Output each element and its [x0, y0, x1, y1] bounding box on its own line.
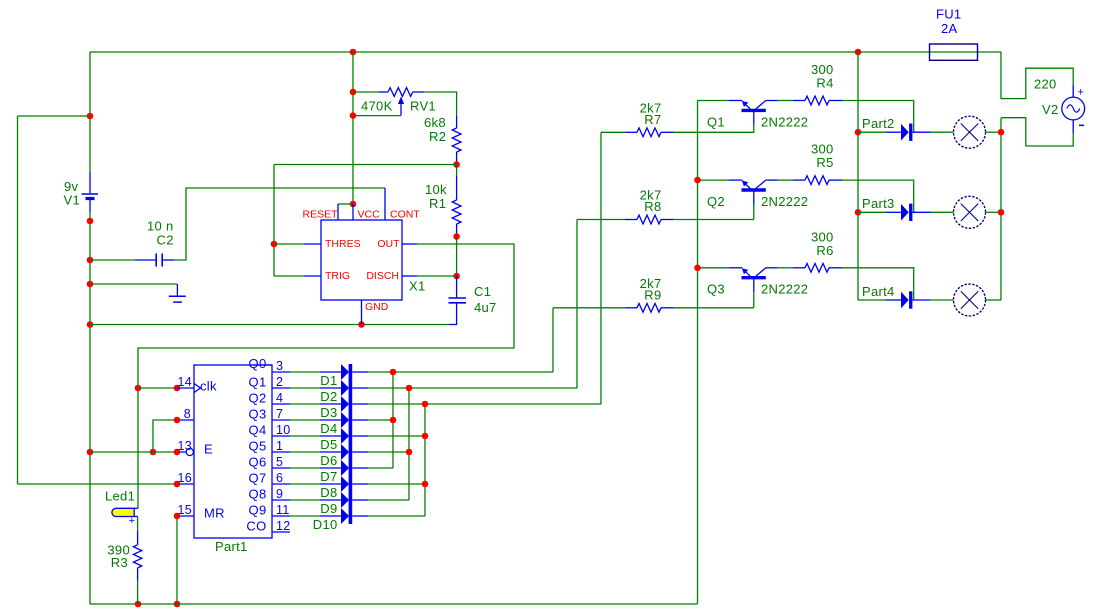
node junction top rail / RV1 branch — [350, 49, 357, 56]
wire matrix column A — [392, 372, 394, 468]
node MR bottom rail junction — [174, 601, 181, 608]
pin GND stub — [361, 300, 363, 325]
svg-text:FU1: FU1 — [936, 7, 961, 22]
resistor R4 — [793, 100, 805, 102]
node junction RESET/VCC tie — [350, 201, 357, 208]
svg-text:MR: MR — [204, 506, 225, 521]
pin Q0 internal wire — [253, 364, 272, 366]
wire column to R8 — [576, 220, 578, 389]
wire outer left vertical — [17, 116, 19, 484]
wire Q2 base down — [753, 205, 755, 220]
svg-text:D2: D2 — [320, 389, 337, 404]
node junction x90/outer-left branch — [87, 113, 94, 120]
wire pin8 to E row — [153, 420, 177, 452]
svg-text:D6: D6 — [320, 453, 337, 468]
lamp for Part2 — [930, 131, 953, 133]
wire E row — [90, 451, 177, 453]
node junction RV1 wiper row — [350, 112, 357, 119]
node Part2 supply junction — [855, 129, 862, 136]
wire battery positive lead down from top rail — [89, 52, 91, 172]
wire MR to bottom rail — [176, 516, 178, 604]
svg-text:D8: D8 — [320, 485, 337, 500]
resistor R6 — [793, 267, 805, 269]
wire D2 cathode row — [352, 387, 368, 389]
wire bottom ground rail — [90, 603, 698, 605]
node DC3 — [422, 401, 429, 408]
wire 555 ground rail — [90, 324, 449, 326]
diode bus cathode bar — [349, 364, 353, 524]
label V2 minus — [1079, 125, 1084, 127]
wire Q4 to diode D5 — [290, 435, 320, 437]
resistor R2 — [456, 116, 458, 128]
wire fuse to V2 plus — [1001, 52, 1073, 99]
svg-text:C2: C2 — [157, 233, 174, 248]
node junction x90/C2 row — [87, 257, 94, 264]
pin 5 stub — [272, 467, 290, 469]
svg-text:1: 1 — [276, 439, 283, 453]
svg-text:Q3: Q3 — [249, 407, 267, 422]
svg-text:D9: D9 — [320, 501, 337, 516]
wire Q1 to diode D2 — [290, 387, 320, 389]
wire Part2 anode — [858, 131, 886, 133]
node DB2 — [406, 385, 413, 392]
pin 12 stub — [272, 531, 290, 533]
pin 10 stub — [272, 435, 290, 437]
node R3 bottom rail junction — [135, 601, 142, 608]
svg-text:R7: R7 — [644, 112, 661, 127]
svg-text:Q2: Q2 — [249, 391, 267, 406]
wire R9 row left — [553, 307, 625, 309]
diode D1 — [341, 364, 349, 380]
pin 9 stub — [272, 499, 290, 501]
svg-text:Q9: Q9 — [249, 503, 267, 518]
svg-text:TRIG: TRIG — [325, 270, 350, 282]
node MR pin connection — [174, 513, 181, 520]
diode D2 — [341, 380, 349, 396]
resistor R5 — [793, 179, 805, 181]
node pin8/E junction — [150, 449, 157, 456]
svg-text:3: 3 — [276, 359, 283, 373]
wire R1 bottom to DISCH node — [456, 237, 458, 277]
diode D5 — [341, 428, 349, 444]
svg-text:2N2222: 2N2222 — [761, 114, 808, 129]
node lamp1 return junction — [998, 129, 1005, 136]
svg-text:X1: X1 — [409, 279, 426, 294]
wire Q8 to diode D9 — [290, 499, 320, 501]
svg-text:Part4: Part4 — [862, 284, 895, 299]
svg-text:10k: 10k — [425, 182, 447, 197]
wire D5 cathode row — [352, 435, 368, 437]
wire Q3 emitter to rail — [698, 267, 730, 269]
wire Q0 to diode D1 — [290, 371, 320, 373]
wire R5 left — [778, 179, 793, 181]
svg-text:CONT: CONT — [390, 209, 420, 221]
node DA4 — [390, 417, 397, 424]
pin 8 stub — [177, 419, 194, 421]
svg-text:2N2222: 2N2222 — [761, 194, 808, 209]
svg-text:R1: R1 — [429, 196, 446, 211]
wire Part2 lamp to return rail — [986, 131, 1002, 133]
svg-text:9: 9 — [276, 487, 283, 501]
node pin16 connection — [174, 481, 181, 488]
wire column to R9 — [552, 308, 554, 372]
wire D7 cathode row — [352, 467, 368, 469]
svg-text:OUT: OUT — [377, 238, 400, 250]
wire D10 cathode row — [352, 515, 368, 517]
wire THRES branch — [274, 243, 304, 245]
svg-text:R4: R4 — [816, 76, 833, 91]
diode Part3 — [886, 211, 901, 213]
svg-text:RESET: RESET — [302, 209, 338, 221]
svg-text:R9: R9 — [644, 287, 661, 302]
svg-text:Q8: Q8 — [249, 487, 267, 502]
pin THRES stub — [304, 243, 321, 245]
svg-text:10 n: 10 n — [147, 219, 174, 234]
svg-text:10: 10 — [276, 423, 291, 437]
diode D3 — [341, 396, 349, 412]
svg-text:R2: R2 — [429, 129, 446, 144]
capacitor C1 — [456, 276, 458, 297]
svg-text:Q3: Q3 — [707, 282, 725, 297]
svg-text:4u7: 4u7 — [474, 300, 497, 315]
svg-text:D7: D7 — [320, 469, 337, 484]
diode D6 — [341, 444, 349, 460]
node junction DISCH/C1 — [453, 273, 460, 280]
wire RV1 left — [353, 91, 378, 93]
wire D9 cathode row — [352, 499, 368, 501]
svg-text:5: 5 — [276, 455, 283, 469]
svg-text:+: + — [1078, 87, 1085, 99]
wire to ground symbol — [90, 283, 177, 285]
node DC5 — [422, 433, 429, 440]
node Q3 emitter junction — [694, 265, 701, 272]
svg-text:D5: D5 — [320, 437, 337, 452]
svg-text:Q1: Q1 — [707, 114, 725, 129]
wire R7 to base — [674, 131, 755, 133]
svg-text:7: 7 — [276, 407, 283, 421]
wire C2 left from battery node — [90, 259, 135, 261]
svg-text:Part2: Part2 — [862, 116, 895, 131]
svg-text:VCC: VCC — [358, 209, 381, 221]
wire V2 minus to lamp return — [1001, 118, 1073, 146]
node junction x90/E pin row — [87, 449, 94, 456]
wire RESET tie — [338, 203, 353, 205]
capacitor C2 — [135, 259, 156, 261]
op-amp U1 555 timer X1 body — [321, 220, 402, 300]
node junction R1 bottom — [453, 233, 460, 240]
svg-text:Q7: Q7 — [249, 471, 267, 486]
wire branch to outer left vertical — [18, 115, 91, 117]
svg-text:GND: GND — [365, 301, 389, 313]
resistor R8 — [625, 219, 637, 221]
svg-text:Q6: Q6 — [249, 455, 267, 470]
diode Part2 — [886, 131, 901, 133]
svg-text:11: 11 — [276, 503, 290, 517]
svg-text:Q0: Q0 — [249, 356, 267, 371]
wire D3 cathode row — [352, 403, 368, 405]
node Part3 supply junction — [855, 209, 862, 216]
diode D8 — [341, 476, 349, 492]
node junction clk branch — [135, 385, 142, 392]
svg-text:Q1: Q1 — [249, 375, 267, 390]
pin 11 stub — [272, 515, 290, 517]
diode Part4 — [886, 299, 901, 301]
svg-text:Q5: Q5 — [249, 439, 267, 454]
node battery negative terminal — [87, 218, 94, 225]
wire Q9 to diode D10 — [290, 515, 320, 517]
svg-text:2: 2 — [276, 375, 283, 389]
resistor R3 — [137, 517, 139, 531]
svg-text:DISCH: DISCH — [366, 270, 399, 282]
pin E bubble — [186, 448, 193, 455]
svg-text:R5: R5 — [816, 155, 833, 170]
wire RV1 right to R2 — [424, 92, 456, 116]
wire R8 to base — [674, 219, 755, 221]
svg-text:RV1: RV1 — [410, 99, 436, 114]
wire battery negative chain down left side — [89, 212, 91, 604]
svg-text:D4: D4 — [320, 421, 337, 436]
node Q2 emitter junction — [694, 177, 701, 184]
svg-text:R8: R8 — [644, 199, 661, 214]
pin CONT stub — [384, 188, 386, 220]
resistor R7 — [625, 131, 637, 133]
wire C2 to CONT pin — [174, 188, 385, 260]
wire lamp return rail — [1000, 118, 1002, 300]
node junction R2/R1/THRES wire — [453, 161, 460, 168]
wire THRES-TRIG net top — [274, 164, 457, 166]
pin OUT stub — [402, 243, 417, 245]
potentiometer RV1 — [378, 91, 388, 93]
pin VCC stub — [352, 204, 354, 220]
node junction GND stub on ground rail — [358, 321, 365, 328]
svg-text:2N2222: 2N2222 — [761, 282, 808, 297]
svg-text:C1: C1 — [474, 284, 491, 299]
svg-text:6: 6 — [276, 471, 283, 485]
pin 14 clk stub — [177, 387, 194, 389]
pin 7 stub — [272, 419, 290, 421]
svg-text:V1: V1 — [64, 193, 81, 208]
node DB6 — [406, 449, 413, 456]
pin 13 stub — [177, 451, 186, 453]
wire Part4 anode — [858, 299, 886, 301]
svg-text:Q2: Q2 — [707, 194, 725, 209]
wire Q1 emitter to rail — [698, 100, 730, 102]
node junction x90/555 ground rail — [87, 321, 94, 328]
wire Part3 anode — [858, 211, 886, 213]
wire lamp supply rail — [857, 52, 859, 300]
svg-text:R3: R3 — [111, 555, 128, 570]
wire Part3 lamp to return rail — [986, 211, 1002, 213]
pin 3 stub — [272, 371, 290, 373]
wire R4 left — [778, 100, 793, 102]
wire D6 cathode row — [352, 451, 368, 453]
pin 6 stub — [272, 483, 290, 485]
LED Led1 — [112, 508, 134, 516]
transistor Q1 2N2222 — [742, 109, 766, 112]
diode D9 — [341, 492, 349, 508]
wire Q3 base down — [753, 292, 755, 308]
wire Q2 emitter to rail — [698, 179, 730, 181]
wire matrix column C — [424, 404, 426, 516]
svg-text:THRES: THRES — [325, 238, 361, 250]
wire R8 row left — [577, 219, 625, 221]
pin 2 stub — [272, 387, 290, 389]
pin TRIG stub — [304, 275, 321, 277]
svg-text:V2: V2 — [1042, 102, 1059, 117]
wire Q1 base down — [753, 125, 755, 132]
wire R5 to lamp node — [842, 180, 914, 212]
wire matrix column B — [408, 388, 410, 500]
lamp for Part3 — [930, 211, 953, 213]
svg-text:D10: D10 — [313, 517, 338, 532]
svg-text:Part1: Part1 — [215, 539, 248, 554]
wire R6 left — [778, 267, 793, 269]
transistor Q2 2N2222 — [742, 188, 766, 191]
node lamp2 return junction — [998, 209, 1005, 216]
svg-text:220: 220 — [1034, 77, 1057, 92]
wire RV1/VCC vertical from top rail — [352, 52, 354, 204]
wire Q5 to diode D6 — [290, 451, 320, 453]
svg-text:14: 14 — [177, 375, 192, 389]
pin DISCH stub — [402, 275, 417, 277]
diode D4 — [341, 412, 349, 428]
wire R4 to lamp node — [842, 101, 914, 133]
wire RV1 wiper return — [353, 115, 401, 117]
wire Part4 lamp to return rail — [986, 299, 1002, 301]
pin 4 stub — [272, 403, 290, 405]
node junction top rail / lamp supply rail — [855, 49, 862, 56]
fuse FU1 — [930, 44, 978, 60]
wire D8 cathode row — [352, 483, 368, 485]
battery V1 — [89, 172, 91, 193]
node DC8 — [422, 481, 429, 488]
node junction THRES branch — [271, 241, 278, 248]
transistor Q3 2N2222 — [742, 276, 766, 279]
wire D4 cathode row — [352, 419, 368, 421]
pin 15 stub — [177, 515, 194, 517]
svg-text:+: + — [129, 515, 136, 527]
wire R7 row left — [601, 131, 625, 133]
node junction RV1 top — [350, 89, 357, 96]
pin RESET stub — [337, 204, 339, 220]
wire emitter rail — [697, 101, 699, 605]
svg-text:8: 8 — [184, 407, 191, 421]
voltage source V2 — [1072, 85, 1074, 97]
wire top power rail — [90, 51, 1001, 53]
wire THRES-TRIG vertical — [273, 165, 275, 277]
svg-text:D1: D1 — [320, 373, 337, 388]
svg-text:12: 12 — [276, 519, 291, 533]
wire Q2 to diode D3 — [290, 403, 320, 405]
node pin8 connection — [174, 417, 181, 424]
node E pin connection — [174, 449, 181, 456]
svg-text:Part3: Part3 — [862, 196, 895, 211]
ground — [176, 284, 178, 296]
diode D10 — [341, 508, 349, 524]
wire R9 to base — [674, 307, 755, 309]
node junction x90/ground symbol row — [87, 281, 94, 288]
pin 1 stub — [272, 451, 290, 453]
svg-text:E: E — [204, 442, 213, 457]
svg-text:CO: CO — [246, 519, 266, 534]
resistor R1 — [456, 165, 458, 177]
svg-text:2A: 2A — [941, 21, 958, 36]
resistor R9 — [625, 307, 637, 309]
svg-text:D3: D3 — [320, 405, 337, 420]
wire R6 to lamp node — [842, 268, 914, 300]
pin clk input triangle — [194, 384, 201, 393]
svg-text:clk: clk — [200, 379, 217, 394]
wire D1 cathode row — [352, 371, 368, 373]
diode D7 — [341, 460, 349, 476]
wire Q7 to diode D8 — [290, 483, 320, 485]
wire OUT to counter clock — [138, 244, 514, 508]
svg-text:Led1: Led1 — [105, 489, 135, 504]
wire Q3 to diode D4 — [290, 419, 320, 421]
svg-text:470K: 470K — [361, 99, 393, 114]
node DA1 — [390, 369, 397, 376]
svg-text:R6: R6 — [816, 243, 833, 258]
wire pin16 row — [18, 483, 178, 485]
wire Q6 to diode D7 — [290, 467, 320, 469]
pin 16 stub — [177, 483, 194, 485]
node clk pin connection — [174, 385, 181, 392]
svg-text:Q4: Q4 — [249, 423, 267, 438]
wire column to R7 — [600, 132, 602, 404]
op-amp U2 decade counter Part1 body — [194, 365, 272, 538]
wire TRIG branch — [274, 275, 304, 277]
svg-text:6k8: 6k8 — [424, 115, 446, 130]
svg-text:4: 4 — [276, 391, 283, 405]
wire clk branch — [138, 387, 177, 389]
wire DISCH to R1/C1 node — [417, 275, 457, 277]
lamp for Part4 — [930, 299, 953, 301]
